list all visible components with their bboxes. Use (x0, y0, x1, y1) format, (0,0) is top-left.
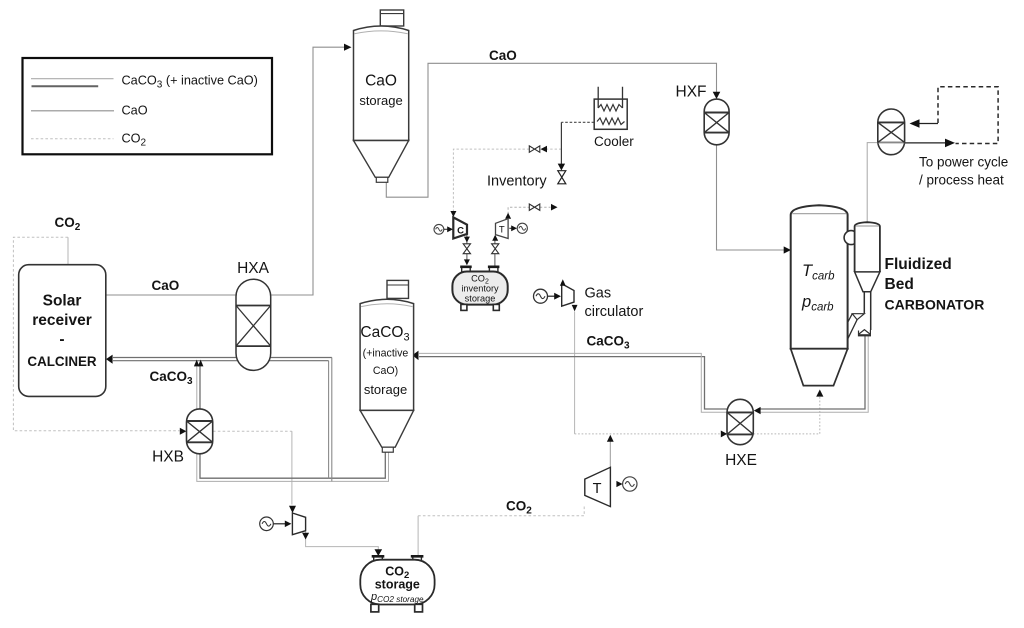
arrow turbine T top riser (505, 213, 511, 219)
reactor Solar receiver CALCINER (19, 265, 106, 397)
arrow compressor discharge (302, 533, 309, 540)
wire vessel to turbine T suction (494, 236, 496, 266)
label CO2 bottom (506, 499, 532, 517)
wire compressor C discharge to vessel (466, 234, 468, 264)
svg-text:storage: storage (359, 93, 402, 108)
wire CO2 dashed storage to turbine (418, 506, 584, 516)
label CO2 calciner (55, 215, 81, 233)
arrow into inventory vessel nozzle (464, 259, 470, 265)
wire flue gas cyclone to HX (867, 143, 878, 222)
arrow into CaO storage (344, 44, 352, 51)
svg-text:CaO): CaO) (373, 365, 398, 377)
svg-text:Inventory: Inventory (487, 174, 547, 190)
wire inventory turbine discharge (508, 207, 550, 218)
svg-text:Fluidized: Fluidized (885, 256, 952, 273)
svg-text:Cooler: Cooler (594, 134, 634, 149)
legend CaO line sample (31, 110, 114, 112)
wire CO2 dashed left loop (13, 237, 179, 431)
arrow inventory line left (541, 146, 548, 153)
svg-text:CaCO3: CaCO3 (587, 334, 631, 352)
heat exchanger top right (878, 109, 905, 155)
svg-text:C: C (457, 226, 464, 237)
arrow into HXF top (713, 92, 721, 99)
valve discharge line bowtie (529, 204, 540, 210)
svg-text:CO2: CO2 (506, 499, 532, 517)
arrow into HXE left dotted line (721, 431, 727, 438)
carbonator crossover duct (844, 231, 858, 245)
svg-text:inventory: inventory (461, 284, 499, 294)
svg-text:T: T (593, 481, 602, 497)
heat exchanger HXB (152, 409, 213, 466)
wire gas dotted feed line to HXE (575, 433, 722, 435)
compressor bottom (260, 513, 306, 535)
turbine T inventory (496, 219, 528, 239)
legend CaCO3 double line sample (31, 79, 114, 87)
wire CaO storage outlet to HXF (386, 63, 716, 197)
svg-text:storage: storage (364, 382, 407, 397)
svg-text:CaCO3: CaCO3 (360, 324, 409, 344)
arrow into compressor C top (450, 211, 456, 217)
svg-text:Gas: Gas (585, 286, 612, 302)
wire inventory charge dashed line (453, 149, 561, 211)
svg-text:receiver: receiver (32, 312, 91, 329)
valve inventory hourglass (487, 171, 566, 190)
wire CaCO3 double line storage outlet to bottom run (197, 366, 389, 481)
gas circulator (534, 279, 644, 320)
svg-text:HXA: HXA (237, 260, 270, 277)
wire CO2 storage right nozzle riser (417, 516, 419, 556)
svg-text:HXE: HXE (725, 452, 757, 469)
arrow turbine discharge up (607, 435, 614, 442)
arrow compressor C discharge (464, 237, 470, 243)
label CaCO3 calciner feed (150, 369, 194, 387)
svg-text:circulator: circulator (585, 304, 644, 320)
arrow into carbonator bottom (816, 390, 823, 397)
svg-text:T: T (499, 225, 505, 236)
wire CaO calciner to HXA (106, 294, 236, 296)
label CaO top (489, 48, 517, 63)
heat exchanger HXF (676, 84, 730, 145)
arrow into HXB left (180, 428, 187, 435)
wire CaO HXF to carbonator (717, 145, 785, 250)
wire CaCO3 double line feed to calciner (113, 358, 332, 361)
legend labels (122, 74, 258, 149)
arrow into CO2 storage nozzle (375, 549, 383, 556)
wire gas dotted HXE to carbonator bottom (754, 396, 820, 434)
arrow pair up CaCO3 riser (194, 360, 204, 367)
cyclone loop seal chute (848, 314, 871, 340)
wire CO2 calciner top riser (67, 237, 69, 265)
svg-text:To power cycle: To power cycle (919, 155, 1008, 170)
arrow into carbonator left (784, 246, 791, 253)
vessel CO2 storage (360, 556, 434, 612)
arrow into inventory valve down (558, 164, 565, 171)
svg-text:storage: storage (465, 294, 496, 304)
label CaO calciner (152, 278, 180, 293)
wire turbine T riser (609, 437, 611, 468)
arrow into HXE right side (754, 407, 761, 414)
svg-text:-: - (59, 331, 64, 348)
arrow into CaCO3 storage right (412, 351, 418, 361)
heat exchanger HXE (725, 399, 757, 469)
cyclone riser vessel (855, 222, 880, 330)
svg-text:CaO: CaO (489, 48, 517, 63)
valve charge line bowtie (529, 146, 540, 152)
svg-text:HXB: HXB (152, 449, 184, 466)
wire CaCO3 double line branch riser (329, 358, 332, 482)
svg-text:CARBONATOR: CARBONATOR (885, 297, 985, 313)
arrow into calciner right (106, 355, 113, 364)
wire CaCO3 double line HXE to CaCO3 storage (419, 353, 727, 412)
arrow inventory discharge right (551, 204, 558, 211)
legend box (23, 58, 273, 154)
wire power cycle arrow out (905, 139, 955, 148)
dashed box power cycle (919, 87, 1008, 188)
wire cooler to inventory valve (561, 122, 594, 164)
vessel CaCO3 storage silo (360, 280, 414, 452)
turbine T bottom (585, 467, 637, 506)
label fluidized bed carbonator (885, 256, 985, 313)
svg-text:/ process heat: / process heat (919, 173, 1004, 188)
wire power cycle arrow in (910, 119, 939, 128)
reactor carbonator vessel (791, 205, 848, 385)
svg-text:Bed: Bed (885, 276, 914, 293)
heat exchanger HXA (236, 260, 271, 370)
svg-text:Solar: Solar (43, 293, 82, 310)
svg-text:CO2: CO2 (55, 215, 81, 233)
wire compressor discharge to CO2 storage (306, 531, 379, 550)
svg-text:storage: storage (375, 578, 420, 592)
svg-text:CaO: CaO (365, 73, 397, 90)
arrow into turbine T bottom (492, 235, 498, 241)
legend CO2 dashed line sample (31, 138, 114, 140)
svg-text:(+inactive: (+inactive (363, 348, 409, 360)
cooler (594, 87, 634, 149)
wire CaO HXA to CaO storage (271, 47, 346, 295)
svg-text:CaCO3: CaCO3 (150, 369, 194, 387)
valve under turbine T (492, 244, 499, 254)
compressor C inventory (434, 217, 467, 238)
wire gas circulator downcomer (574, 312, 576, 434)
wire CaCO3 double line carbonator to HXE (760, 336, 869, 412)
label CaCO3 right (587, 334, 631, 352)
svg-text:HXF: HXF (676, 84, 707, 101)
valve under compressor C (463, 244, 470, 254)
svg-text:CaO: CaO (122, 104, 148, 118)
vessel CO2 inventory storage (452, 267, 507, 311)
vessel CaO storage silo (354, 10, 409, 182)
wire CO2 dashed HXB to compressor (213, 431, 292, 504)
svg-text:CALCINER: CALCINER (27, 354, 97, 369)
arrow into bottom compressor (289, 506, 296, 513)
svg-text:CaO: CaO (152, 278, 180, 293)
